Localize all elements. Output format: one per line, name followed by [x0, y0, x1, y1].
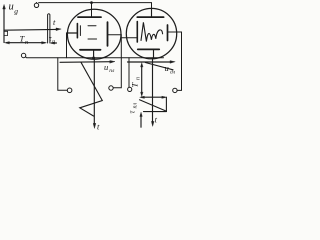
svg-text:g: g: [14, 7, 18, 16]
svg-text:t: t: [53, 17, 56, 27]
svg-text:п: п: [25, 40, 28, 46]
svg-text:t: t: [97, 122, 100, 132]
svg-text:пл: пл: [109, 68, 115, 74]
svg-text:u: u: [165, 63, 169, 73]
svg-text:дл: дл: [170, 69, 176, 76]
svg-text:T: T: [130, 82, 140, 88]
svg-text:u: u: [9, 2, 14, 13]
svg-text:п: п: [135, 77, 141, 80]
svg-text:пл: пл: [133, 103, 139, 109]
svg-text:τ: τ: [128, 110, 137, 114]
svg-text:t: t: [155, 114, 158, 124]
svg-text:u: u: [104, 62, 108, 72]
svg-text:и: и: [52, 39, 55, 45]
